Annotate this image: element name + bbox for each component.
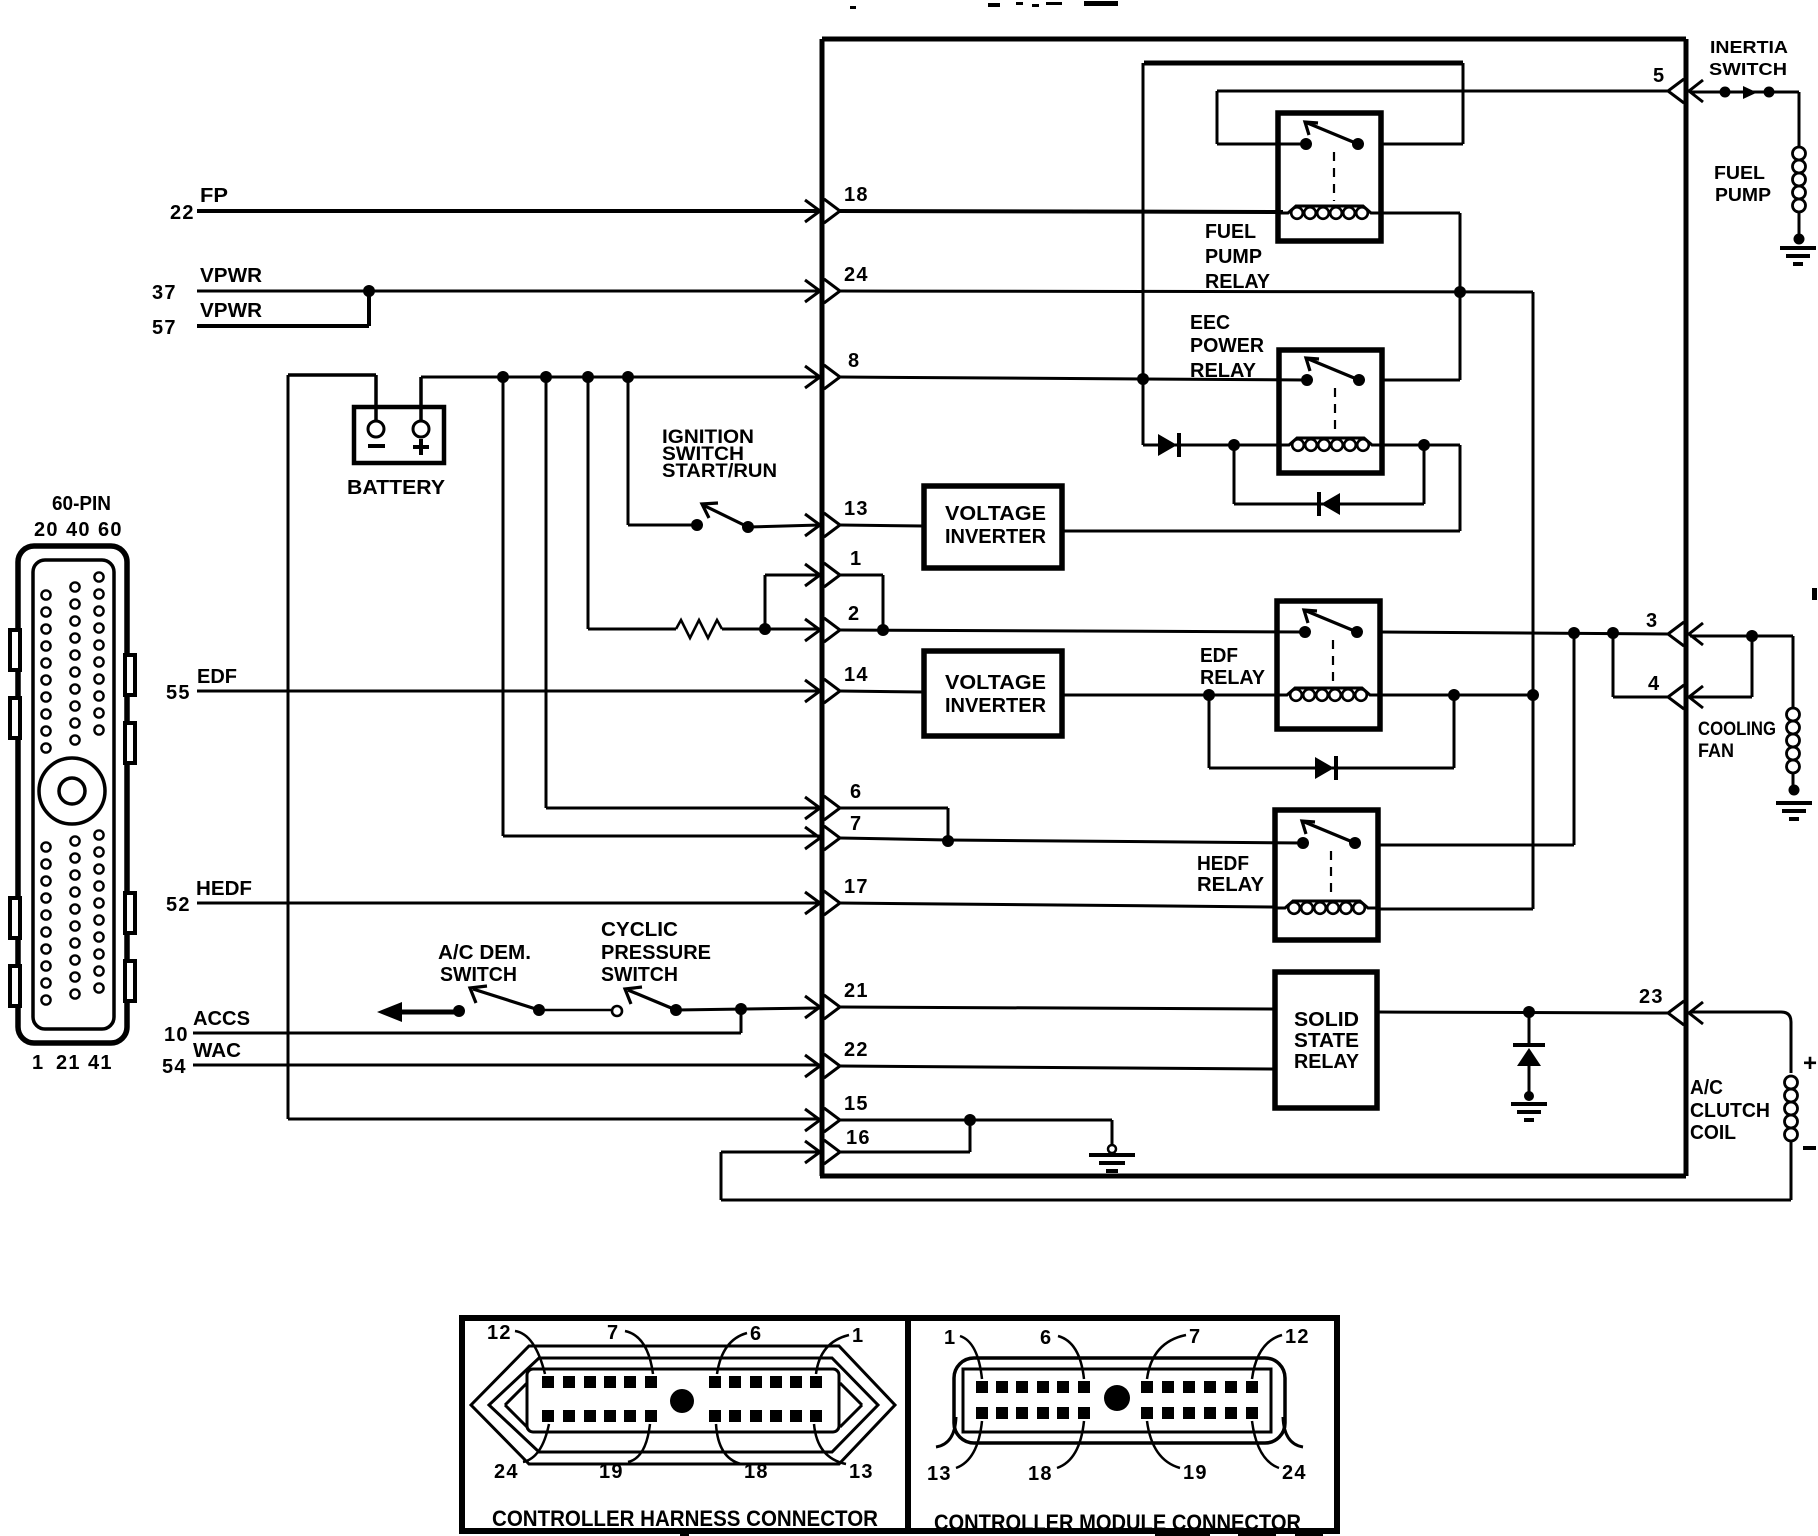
resistor (676, 620, 722, 638)
svg-text:13: 13 (927, 1463, 952, 1485)
wire battery plus lead (419, 377, 423, 421)
svg-text:22: 22 (170, 202, 195, 224)
svg-text:21: 21 (56, 1052, 81, 1074)
wire pin16 internal (840, 1151, 970, 1154)
svg-text:12: 12 (487, 1322, 512, 1344)
svg-text:8: 8 (848, 350, 860, 372)
svg-text:STATE: STATE (1294, 1030, 1359, 1052)
ground (A/C diode) (1511, 1104, 1547, 1120)
pin 23 (1639, 986, 1703, 1025)
svg-text:4: 4 (1648, 673, 1660, 695)
wire pin15 internal to ground (840, 1119, 1112, 1122)
controller harness connector (462, 1318, 908, 1531)
wire resistor to pin2 (722, 628, 820, 631)
svg-text:CONTROLLER HARNESS CONNECTOR: CONTROLLER HARNESS CONNECTOR (492, 1506, 878, 1531)
svg-text:1: 1 (32, 1052, 44, 1074)
svg-text:15: 15 (844, 1093, 869, 1115)
wire fuel pump to ground (1798, 212, 1801, 237)
wire: box right edge (1684, 39, 1689, 1176)
wire pin2 to EDF relay (840, 630, 1306, 632)
wire tap to pin6 (545, 377, 548, 808)
wire diode to coil left (1172, 444, 1279, 447)
wire pin13 to voltage inverter U1 (840, 525, 924, 526)
svg-text:12: 12 (1285, 1326, 1310, 1348)
wire tap to ignition switch (627, 377, 630, 525)
relay: EEC POWER RELAY (1279, 350, 1382, 473)
diode D4 to ground (1528, 1012, 1531, 1043)
wire vertical 1143: top loop to pin8 node and EEC diode (1142, 63, 1145, 445)
wire EDF coil right to VPWR riser (1380, 694, 1533, 697)
wire pin23 to A/C clutch coil (1690, 1012, 1791, 1073)
svg-text:START/RUN: START/RUN (662, 461, 777, 482)
wire U2 output to EDF relay coil (1062, 694, 1277, 697)
wire ACCS pin10 (193, 1032, 741, 1035)
svg-text:24: 24 (494, 1461, 519, 1483)
svg-text:60-PIN: 60-PIN (52, 493, 111, 515)
svg-text:COIL: COIL (1690, 1122, 1736, 1144)
wire tap to resistor (587, 377, 590, 629)
wire VPWR pin57 (197, 324, 369, 328)
wire A/C coil minus to bottom return (1790, 1141, 1793, 1200)
svg-text:VOLTAGE: VOLTAGE (945, 503, 1046, 525)
wire battery minus lead (374, 407, 378, 421)
svg-text:VPWR: VPWR (200, 300, 263, 322)
svg-text:54: 54 (162, 1056, 187, 1078)
svg-text:16: 16 (846, 1127, 871, 1149)
wire pin8 power bus (421, 376, 820, 379)
scan noise top (850, 1, 1118, 9)
svg-text:FUEL: FUEL (1205, 221, 1256, 243)
svg-text:RELAY: RELAY (1200, 667, 1266, 689)
svg-text:6: 6 (850, 781, 862, 803)
svg-text:13: 13 (849, 1461, 874, 1483)
svg-text:1: 1 (850, 548, 862, 570)
A/C demand switch chain (377, 942, 545, 1022)
wire pin5 to inertia switch (1690, 91, 1799, 94)
wire pin3 to cooling fan (1690, 635, 1793, 638)
svg-text:57: 57 (152, 317, 177, 339)
svg-text:HEDF: HEDF (1197, 853, 1249, 875)
wire SSR output to pin23 (1377, 1012, 1668, 1013)
pin 2 (805, 603, 860, 642)
svg-text:RELAY: RELAY (1190, 360, 1257, 382)
svg-text:CONTROLLER MODULE CONNECTOR: CONTROLLER MODULE CONNECTOR (934, 1510, 1301, 1535)
pin 8 (805, 350, 860, 389)
svg-text:CYCLIC: CYCLIC (601, 919, 678, 941)
svg-text:BATTERY: BATTERY (347, 477, 446, 499)
wire fuel pump relay switch right (1462, 63, 1465, 144)
wire pin5 internal (1217, 90, 1668, 93)
svg-text:+: + (1803, 1050, 1817, 1077)
A/C clutch coil (1785, 1076, 1798, 1141)
wire pin18 to fuel pump relay coil (840, 211, 1283, 212)
wire ACCS riser (740, 1009, 743, 1033)
pin 21 (805, 980, 869, 1019)
pin 1 (805, 548, 862, 587)
wire pin1 left loop (764, 575, 767, 629)
svg-text:HEDF: HEDF (196, 878, 252, 900)
svg-text:VOLTAGE: VOLTAGE (945, 672, 1046, 694)
svg-text:6: 6 (750, 1323, 762, 1345)
pin 13 (805, 498, 869, 537)
svg-text:41: 41 (88, 1052, 113, 1074)
pin 16 (805, 1127, 871, 1164)
svg-text:PUMP: PUMP (1715, 184, 1771, 205)
svg-text:RELAY: RELAY (1205, 271, 1271, 293)
ground (fuel pump) (1780, 248, 1816, 264)
wire EDF pin55 (197, 690, 820, 693)
svg-text:3: 3 (1646, 610, 1658, 632)
voltage inverter U2 (924, 651, 1062, 736)
svg-text:13: 13 (844, 498, 869, 520)
svg-text:20: 20 (34, 519, 59, 541)
svg-text:RELAY: RELAY (1197, 874, 1265, 896)
svg-text:18: 18 (744, 1461, 769, 1483)
wire fuel pump relay top loop (1144, 61, 1463, 66)
svg-text:COOLING: COOLING (1698, 719, 1776, 740)
pin 24 (805, 264, 869, 303)
wire VPWR riser down right side (1532, 292, 1535, 909)
svg-text:PUMP: PUMP (1205, 246, 1262, 268)
ground (cooling fan) (1776, 803, 1812, 819)
svg-text:FP: FP (200, 185, 228, 207)
wire between switches (539, 1009, 611, 1012)
svg-text:SWITCH: SWITCH (601, 964, 678, 986)
svg-text:SWITCH: SWITCH (440, 964, 517, 986)
wire EEC relay switch right up to VPWR (1382, 379, 1460, 382)
wire VPWR to HEDF coil (1378, 908, 1533, 911)
diode D1 (series, EEC relay coil) (1143, 444, 1158, 447)
wire pin21 to solid state relay (840, 1007, 1275, 1009)
wire pin24 VPWR bus (840, 291, 1533, 292)
svg-text:10: 10 (164, 1024, 189, 1046)
svg-text:18: 18 (1028, 1463, 1053, 1485)
svg-text:RELAY: RELAY (1294, 1051, 1360, 1073)
wire pin15 feed (288, 1118, 820, 1121)
svg-text:7: 7 (607, 1322, 619, 1344)
wire HEDF pin52 (197, 902, 820, 905)
svg-text:CLUTCH: CLUTCH (1690, 1100, 1770, 1122)
wire pin16 external loop (721, 1151, 820, 1154)
svg-text:VPWR: VPWR (200, 265, 263, 287)
svg-text:PRESSURE: PRESSURE (601, 942, 711, 964)
svg-text:24: 24 (1282, 1462, 1307, 1484)
wire battery minus rail down (287, 375, 290, 1119)
svg-text:FAN: FAN (1698, 741, 1734, 762)
pin 3 (1646, 610, 1703, 646)
svg-text:A/C DEM.: A/C DEM. (438, 942, 531, 964)
relay: HEDF RELAY (1275, 810, 1378, 940)
relay: FUEL PUMP RELAY (1278, 113, 1381, 241)
svg-text:17: 17 (844, 876, 869, 898)
pin 6 (805, 781, 862, 820)
pin 4 (1648, 673, 1703, 709)
svg-text:1: 1 (944, 1327, 956, 1349)
wire: box bottom edge (820, 1174, 1686, 1179)
svg-text:EDF: EDF (197, 666, 237, 688)
diode D3 (flyback across EDF relay coil) (1208, 695, 1211, 768)
svg-text:INVERTER: INVERTER (945, 695, 1047, 717)
wire inertia switch to fuel pump (1798, 92, 1801, 147)
battery (347, 407, 446, 499)
wire pin22 to solid state relay (840, 1066, 1275, 1069)
svg-text:5: 5 (1653, 65, 1665, 87)
relay: EDF RELAY (1277, 601, 1380, 729)
wire tap to pin7 (502, 377, 505, 836)
svg-text:ACCS: ACCS (193, 1008, 250, 1030)
svg-text:52: 52 (166, 894, 191, 916)
svg-text:2: 2 (848, 603, 860, 625)
wire pin4 internal loop (1612, 633, 1615, 697)
cyclic pressure switch (601, 919, 711, 1016)
wire switch chain to pin21 (676, 1008, 820, 1010)
wire pin1 right loop (840, 574, 883, 577)
pin 17 (805, 876, 869, 915)
svg-text:FUEL: FUEL (1714, 162, 1765, 183)
ignition switch START/RUN (662, 427, 777, 533)
svg-text:19: 19 (1183, 1462, 1208, 1484)
wire pin8 internal (840, 377, 1306, 380)
svg-text:A/C: A/C (1690, 1077, 1723, 1099)
svg-text:7: 7 (850, 813, 862, 835)
svg-text:55: 55 (166, 682, 191, 704)
svg-text:22: 22 (844, 1039, 869, 1061)
wire EDF switch right to pin3 (1380, 632, 1668, 634)
wire: box left edge (820, 39, 825, 1176)
svg-text:EDF: EDF (1200, 645, 1238, 667)
wire pin4 external loop (1690, 696, 1752, 699)
cooling fan (1792, 636, 1795, 708)
svg-text:18: 18 (844, 184, 869, 206)
wire: box top edge (822, 37, 1686, 42)
60-pin connector (10, 493, 135, 1074)
wire fuel pump relay coil right to VPWR node (1381, 212, 1460, 215)
svg-text:6: 6 (1040, 1327, 1052, 1349)
svg-text:EEC: EEC (1190, 312, 1230, 334)
svg-text:24: 24 (844, 264, 869, 286)
svg-text:19: 19 (599, 1461, 624, 1483)
pin 15 (805, 1093, 869, 1132)
solid state relay (1275, 972, 1377, 1108)
wire VPWR pin37 (197, 290, 820, 293)
svg-text:7: 7 (1189, 1326, 1201, 1348)
wire FP pin22 (197, 209, 820, 213)
svg-text:POWER: POWER (1190, 335, 1265, 357)
svg-text:WAC: WAC (193, 1040, 241, 1062)
svg-text:14: 14 (844, 664, 869, 686)
pin 22 (805, 1039, 869, 1078)
svg-text:INERTIA: INERTIA (1710, 37, 1788, 57)
svg-text:SOLID: SOLID (1294, 1009, 1359, 1031)
wire bottom return to A/C clutch coil (721, 1199, 1791, 1202)
svg-text:SWITCH: SWITCH (1709, 59, 1787, 79)
svg-text:1: 1 (852, 1325, 864, 1347)
svg-text:37: 37 (152, 282, 177, 304)
voltage inverter U1 (924, 486, 1062, 568)
svg-text:40: 40 (66, 519, 91, 541)
diode D2 (flyback across EEC relay coil) (1233, 445, 1236, 504)
svg-text:INVERTER: INVERTER (945, 526, 1047, 548)
svg-text:60: 60 (98, 519, 123, 541)
wire EEC coil right (1382, 444, 1460, 447)
wire WAC pin54 (193, 1064, 820, 1067)
wire ignition switch to pin13 (748, 525, 820, 527)
wire pin14 to voltage inverter U2 (840, 691, 924, 692)
svg-text:21: 21 (844, 980, 869, 1002)
wire pin7 internal to HEDF switch (840, 838, 948, 840)
svg-text:23: 23 (1639, 986, 1664, 1008)
wire fuel pump relay switch left to pin5 riser (1217, 143, 1306, 146)
controller module connector (908, 1318, 1337, 1535)
ground (pins 15/16) (1111, 1120, 1114, 1146)
pin 18 (805, 184, 869, 223)
pin 5 (1653, 65, 1703, 103)
wire U1 output to EEC coil (1062, 530, 1460, 533)
wire HEDF switch right riser to pin3 wire (1378, 844, 1574, 847)
wire pin17 to HEDF coil (840, 903, 1275, 907)
pin 7 (805, 813, 862, 850)
pin 14 (805, 664, 869, 703)
wire pin6 internal (840, 807, 948, 810)
